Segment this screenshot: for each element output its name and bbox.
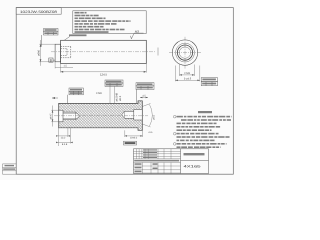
svg-text:1023JW-500BZ08: 1023JW-500BZ08 — [20, 10, 57, 14]
centerline — [51, 51, 155, 53]
right bore lines — [122, 110, 143, 121]
part number box — [16, 8, 61, 15]
svg-text:10±0.2: 10±0.2 — [130, 137, 138, 140]
notes bottom right — [177, 111, 232, 148]
mid callout left — [105, 80, 123, 86]
overall length dim — [55, 62, 146, 73]
callout box upper-left — [41, 29, 58, 47]
section bottom dims — [58, 128, 142, 146]
svg-text:124.5: 124.5 — [100, 72, 107, 76]
svg-text:M3: M3 — [135, 30, 139, 34]
boxed dim below right — [124, 141, 137, 145]
border frame — [16, 8, 233, 175]
svg-text:2-M3: 2-M3 — [184, 72, 190, 75]
section view body with hatch — [59, 101, 143, 130]
callout above section — [68, 88, 84, 103]
svg-text:13.2: 13.2 — [61, 137, 66, 140]
bore clear areas — [59, 110, 143, 122]
svg-text:⌀6h6: ⌀6h6 — [38, 49, 41, 55]
svg-text:3-⌀4.5: 3-⌀4.5 — [184, 78, 192, 81]
chamfer dim right of section — [142, 104, 152, 128]
svg-text:8.4.8: 8.4.8 — [62, 143, 68, 146]
circular end view — [172, 40, 197, 65]
margin table bottom-left — [3, 164, 17, 174]
notes box top — [73, 11, 146, 34]
side view — [55, 40, 146, 63]
svg-text:⌀5.5: ⌀5.5 — [119, 95, 122, 101]
hidden lines — [61, 47, 71, 58]
circle dims — [175, 65, 199, 82]
svg-text:2-M3: 2-M3 — [96, 92, 102, 95]
datum B — [49, 58, 55, 62]
title block — [134, 149, 209, 174]
svg-text:4X16b: 4X16b — [184, 164, 201, 168]
left dia dimension — [39, 40, 55, 66]
section left dim — [51, 106, 58, 127]
mid callout right — [136, 83, 154, 104]
section arrow A — [52, 97, 58, 99]
left bore lines — [59, 110, 80, 122]
circle callout box — [201, 78, 217, 86]
svg-text:⌀4H7: ⌀4H7 — [49, 113, 52, 119]
roughness symbol M3 — [131, 33, 144, 39]
section outline — [59, 101, 143, 130]
svg-text:⌀4.5: ⌀4.5 — [153, 114, 156, 119]
leader to step — [64, 36, 70, 40]
centerline — [54, 115, 148, 117]
